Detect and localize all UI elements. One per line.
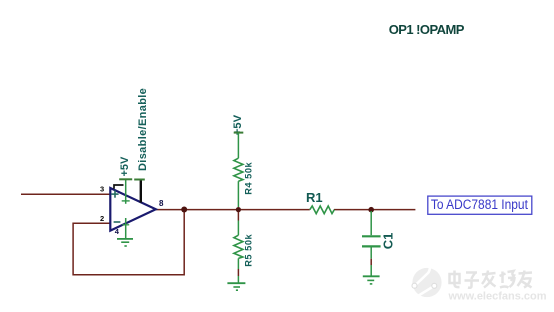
ground (C1) [363, 276, 380, 284]
ground (R5) [227, 283, 245, 290]
op-amp pin 4 lead to ground [122, 218, 129, 239]
wire: input to pin 3 [21, 193, 110, 195]
op-amp corner hook mark [114, 185, 124, 189]
label R1 [306, 190, 323, 205]
net label Disable/Enable [137, 88, 149, 171]
wire C1 to ground [370, 259, 372, 276]
wire: feedback loop (pin 2, left, bottom, up to output node) [73, 210, 184, 275]
pin number 2 [100, 214, 104, 223]
junction node at R4/R5 [236, 207, 241, 212]
pin number 8 (output) [159, 199, 164, 208]
svg-text:R4 50k: R4 50k [243, 161, 253, 194]
label R5 50k [243, 233, 253, 266]
svg-text:+5V: +5V [119, 156, 131, 177]
op-amp U1 triangle [110, 188, 156, 231]
svg-text:R5 50k: R5 50k [243, 233, 253, 266]
svg-text:OP1 !OPAMP: OP1 !OPAMP [389, 22, 465, 37]
resistor R1 [310, 206, 335, 214]
watermark char zi [465, 273, 480, 288]
power bar (disable pin) [134, 179, 145, 181]
label R4 50k [243, 161, 253, 194]
op-amp inverting - marker [114, 221, 121, 223]
op-amp disable/enable pin (thick) [140, 180, 142, 203]
svg-text:To ADC7881 Input: To ADC7881 Input [431, 197, 528, 213]
watermark char dian [450, 271, 460, 288]
wire R5 to ground [237, 269, 239, 283]
svg-text:2: 2 [100, 214, 104, 223]
op-amp non-inverting + marker [111, 191, 118, 198]
resistor R4 50k [234, 133, 243, 207]
power bar +5V (op-amp) [119, 178, 132, 180]
wire: R1 to end near ADC box [334, 209, 415, 211]
svg-text:Disable/Enable: Disable/Enable [137, 88, 149, 171]
watermark url text [448, 291, 547, 303]
net label +5V (op-amp) [119, 156, 131, 177]
power bar +5V (R4) [234, 132, 244, 134]
svg-text:C1: C1 [381, 233, 396, 250]
node To ADC7881 Input (port box) [428, 196, 532, 214]
label C1 [381, 233, 396, 250]
net label +5V (R4) [232, 114, 244, 135]
watermark logo disc [412, 256, 442, 298]
svg-text:www.elecfans.com: www.elecfans.com [448, 291, 547, 303]
watermark char shao [500, 271, 515, 288]
op-amp designator label OP1 !OPAMP [389, 22, 465, 37]
pin number 3 [100, 184, 104, 193]
resistor R5 50k [234, 212, 243, 269]
capacitor C1 [362, 211, 381, 259]
ground (op-amp) [117, 239, 133, 246]
svg-text:3: 3 [100, 184, 104, 193]
junction node at R1/C1 [368, 207, 374, 213]
pin number 4 [115, 227, 120, 236]
svg-text:8: 8 [159, 199, 164, 208]
wire: output to R1 [156, 209, 310, 211]
watermark char you [518, 271, 533, 288]
svg-text:R1: R1 [306, 190, 323, 205]
op-amp +5V supply pin [122, 179, 130, 203]
watermark char fa [482, 271, 496, 288]
junction node at output [181, 207, 187, 213]
